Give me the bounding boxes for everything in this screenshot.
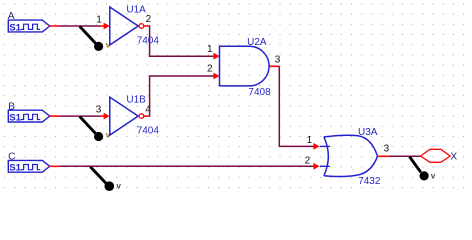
svg-text:7408: 7408 xyxy=(248,87,271,98)
signal source S1 (net C) xyxy=(8,160,59,173)
svg-text:S1: S1 xyxy=(9,22,21,33)
svg-text:2: 2 xyxy=(207,63,213,74)
svg-text:S1: S1 xyxy=(9,113,21,124)
input arrow at U3A pin 1 xyxy=(313,143,319,150)
AND gate U2A (7408) xyxy=(220,46,280,86)
OR gate U3A (7432) xyxy=(320,135,389,176)
svg-text:3: 3 xyxy=(96,104,102,115)
wire U2A.3 to U3A.1 xyxy=(279,66,314,146)
wire U3A.3 to output connector X xyxy=(389,155,421,157)
wire net A: source S1 to U1A pin 1 xyxy=(59,25,100,27)
wire net B: source S1 to U1B pin 3 xyxy=(59,115,100,117)
svg-text:1: 1 xyxy=(207,44,213,55)
svg-text:X: X xyxy=(450,152,457,163)
input arrow at U1A pin 1 xyxy=(100,23,110,30)
probe v on net A xyxy=(80,26,111,51)
svg-text:U3A: U3A xyxy=(358,127,378,138)
input arrow at U2A pin 1 xyxy=(213,53,219,60)
signal source S1 (net B) xyxy=(8,110,59,123)
svg-text:3: 3 xyxy=(384,143,390,154)
inverter U1B (7404) xyxy=(110,97,149,135)
wire U1A.2 to U2A.1 xyxy=(149,26,214,56)
svg-text:7404: 7404 xyxy=(137,36,160,47)
svg-text:2: 2 xyxy=(146,14,152,25)
probe v on net C xyxy=(90,167,121,191)
svg-text:4: 4 xyxy=(145,105,151,116)
svg-text:2: 2 xyxy=(305,155,311,166)
input arrow at U3A pin 2 xyxy=(313,163,319,170)
svg-text:7404: 7404 xyxy=(137,126,160,137)
inverter U1A (7404) xyxy=(110,7,149,45)
input arrow at U1B pin 3 xyxy=(100,113,110,120)
svg-text:1: 1 xyxy=(307,135,313,146)
svg-text:U1B: U1B xyxy=(126,95,146,106)
svg-text:U1A: U1A xyxy=(126,5,146,16)
probe v on net X xyxy=(410,157,436,181)
input arrow at U2A pin 2 xyxy=(213,73,219,80)
svg-text:1: 1 xyxy=(96,14,102,25)
svg-text:7432: 7432 xyxy=(358,176,381,187)
signal source S1 (net A) xyxy=(8,20,59,33)
svg-text:U2A: U2A xyxy=(247,37,267,48)
wire net C: source S1 to U3A pin 2 xyxy=(59,165,314,167)
svg-text:S1: S1 xyxy=(9,163,21,174)
svg-text:v: v xyxy=(116,181,121,190)
svg-text:3: 3 xyxy=(275,55,281,66)
output connector X (lens symbol) xyxy=(421,149,451,162)
svg-text:v: v xyxy=(431,172,436,181)
probe v on net B xyxy=(80,116,111,141)
wire U1B.4 to U2A.2 xyxy=(149,76,214,116)
